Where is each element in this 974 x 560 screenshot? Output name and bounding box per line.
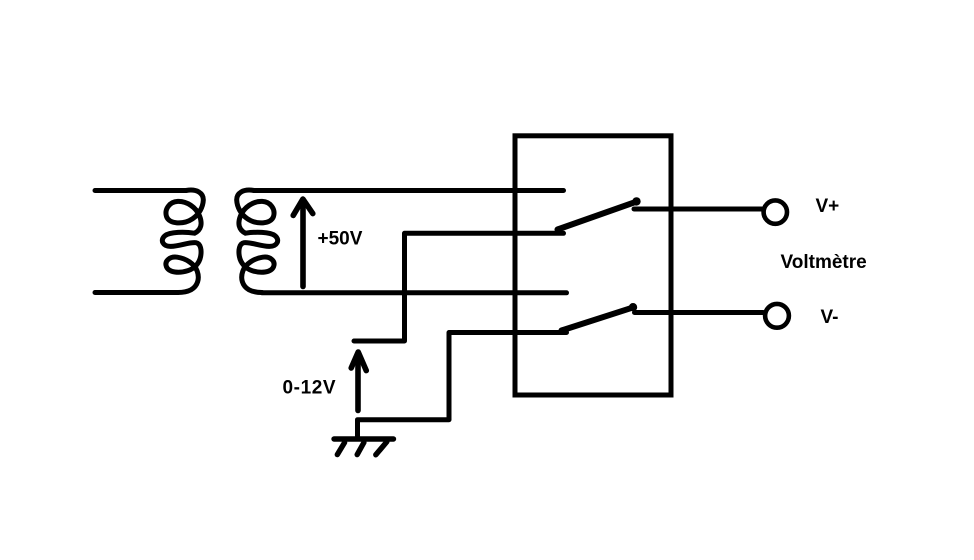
terminal V+ [764,200,787,223]
svg-text:0-12V: 0-12V [283,378,337,399]
switch box [515,136,671,395]
svg-text:+50V: +50V [318,229,363,250]
svg-text:Voltmètre: Voltmètre [781,252,867,273]
ground symbol [334,439,394,455]
transformer secondary winding [237,190,278,292]
wire primary bottom lead [95,290,178,295]
svg-text:V+: V+ [816,196,840,217]
wire 0-12V positive to switch box [354,233,564,341]
switch S1 blade [555,197,641,233]
transformer primary winding [162,190,203,292]
wire secondary top to switch box [254,188,564,193]
wire S1 output to V+ terminal [634,207,762,212]
terminal V- [765,304,789,328]
switch S2 blade [559,303,637,334]
wire S2 output to V- terminal [635,310,764,315]
svg-text:V-: V- [821,307,839,328]
wire ground return to switch box [358,333,567,440]
0-12V source arrow [351,352,366,411]
wire primary top lead [95,188,186,193]
wire secondary bottom to switch box [262,290,567,295]
+50V source arrow [293,199,313,286]
